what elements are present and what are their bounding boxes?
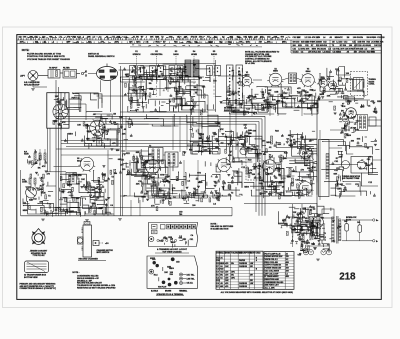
upper right misc xyxy=(346,135,379,150)
svg-text:5%: 5% xyxy=(364,163,367,165)
svg-text:330: 330 xyxy=(319,42,322,44)
table row line xyxy=(216,270,263,272)
svg-text:10K: 10K xyxy=(55,96,59,98)
tables bottom line xyxy=(216,288,294,290)
output stage wiring xyxy=(283,130,317,196)
field coil taps xyxy=(332,152,344,187)
label pickup xyxy=(24,81,40,86)
svg-text:1M: 1M xyxy=(199,138,202,140)
chassis part box xyxy=(152,225,158,230)
svg-text:470: 470 xyxy=(101,41,104,44)
svg-text:10K: 10K xyxy=(212,132,216,134)
svg-text:22K: 22K xyxy=(293,212,297,214)
switch drop wire xyxy=(175,80,177,100)
part box drop wire 1 xyxy=(47,128,49,172)
speaker field / choke box xyxy=(319,140,330,197)
gang line S5 xyxy=(213,56,215,64)
V1 bias components xyxy=(243,89,273,110)
schematic border frame xyxy=(17,35,382,300)
svg-text:OUTPUT TRANS 5K: OUTPUT TRANS 5K xyxy=(265,264,282,267)
vertical wire xyxy=(190,80,192,150)
svg-text:100 218: 100 218 xyxy=(293,42,300,44)
svg-text:5%: 5% xyxy=(114,173,117,175)
wafer S1 contacts xyxy=(132,67,141,72)
svg-text:R7: R7 xyxy=(141,37,143,39)
tone takeoff wiring xyxy=(186,173,221,198)
misc resistor table xyxy=(264,252,294,290)
eye tube mount box xyxy=(351,157,373,174)
svg-text:68K: 68K xyxy=(118,159,122,161)
switch drop wire xyxy=(167,80,169,92)
driver wiring xyxy=(218,131,262,162)
svg-text:5%: 5% xyxy=(136,37,139,39)
label volume xyxy=(22,179,28,183)
switch wafer S3 left xyxy=(169,66,175,76)
svg-text:68K: 68K xyxy=(213,134,217,136)
svg-text:R22: R22 xyxy=(367,42,370,44)
wire xyxy=(33,86,47,88)
power input wiring xyxy=(292,206,325,240)
vertical wire xyxy=(198,80,200,150)
label switch S5 xyxy=(88,53,115,58)
switch wafer S3 right xyxy=(177,66,183,76)
svg-text:10K: 10K xyxy=(81,179,85,181)
title band rule 2 xyxy=(17,42,382,44)
svg-text:OSC COIL 260UH: OSC COIL 260UH xyxy=(265,270,280,272)
svg-text:470: 470 xyxy=(259,41,262,44)
svg-text:SPEECH: SPEECH xyxy=(133,54,141,56)
label V3 xyxy=(306,69,311,73)
svg-text:47K: 47K xyxy=(42,165,46,168)
svg-text:.01: .01 xyxy=(323,49,326,51)
output transformer components xyxy=(339,111,360,138)
svg-text:C12: C12 xyxy=(77,37,80,39)
left vertical bus 3 xyxy=(60,92,62,216)
tube socket box top view xyxy=(167,225,171,229)
speaker plug terminal xyxy=(171,257,175,261)
resistor xyxy=(29,178,31,184)
svg-text:2.2: 2.2 xyxy=(365,49,368,51)
svg-text:S2B: S2B xyxy=(259,183,263,185)
svg-text:.1: .1 xyxy=(55,37,57,39)
mid bus drop xyxy=(246,147,248,150)
label V1 xyxy=(245,72,250,76)
shield box (dashed) xyxy=(246,149,260,180)
svg-text:44: 44 xyxy=(286,252,288,255)
resistor heater xyxy=(301,241,303,247)
ground xyxy=(316,259,320,261)
svg-text:MEG: MEG xyxy=(346,135,351,137)
gang line S4 lower xyxy=(193,64,195,97)
tube V4b xyxy=(216,159,232,173)
svg-text:2.2: 2.2 xyxy=(99,37,102,39)
wire xyxy=(34,160,36,165)
below tube chain wiring xyxy=(223,100,318,114)
svg-text:330: 330 xyxy=(42,37,45,39)
tone control network xyxy=(281,205,323,237)
svg-text:R22: R22 xyxy=(155,37,158,39)
label BASS xyxy=(173,53,179,56)
table row line xyxy=(264,283,294,285)
title band rule 3 right xyxy=(291,46,381,48)
switch wafer S2 right xyxy=(158,66,164,76)
tube V2 converter xyxy=(267,73,283,87)
note text xyxy=(22,49,30,52)
gang line S4 xyxy=(193,56,195,64)
table row line xyxy=(264,277,294,279)
part box text xyxy=(153,226,156,228)
note text switches xyxy=(211,223,234,230)
dashed lead xyxy=(99,242,104,244)
part box drop wire 2 xyxy=(49,128,51,172)
antenna terminal box xyxy=(369,117,376,126)
svg-text:C12: C12 xyxy=(323,42,326,44)
table row line xyxy=(264,266,294,268)
svg-text:C4: C4 xyxy=(216,282,218,285)
svg-text:R22: R22 xyxy=(228,42,231,44)
chassis labels xyxy=(159,234,194,247)
terminal row line xyxy=(27,268,47,270)
table row line xyxy=(264,280,294,282)
bottom-left components xyxy=(25,184,48,205)
label SPEECH xyxy=(133,54,141,56)
socket box first xyxy=(161,225,166,230)
wire xyxy=(121,150,149,152)
svg-text:R22: R22 xyxy=(156,42,159,44)
svg-text:.1: .1 xyxy=(82,37,84,39)
label terminal xyxy=(179,289,187,292)
svg-text:L4 218: L4 218 xyxy=(336,41,342,44)
table row line xyxy=(264,260,294,262)
tube V4 detector xyxy=(144,160,162,175)
resistor divider xyxy=(34,153,36,160)
svg-text:C4: C4 xyxy=(216,276,218,279)
svg-text:68K: 68K xyxy=(198,133,202,135)
wire xyxy=(120,76,204,78)
V4b components xyxy=(215,174,234,201)
svg-text:470: 470 xyxy=(225,276,228,279)
svg-text:.05: .05 xyxy=(346,51,349,53)
svg-text:10K: 10K xyxy=(164,272,168,274)
svg-text:68K: 68K xyxy=(339,184,343,186)
svg-text:S2B: S2B xyxy=(248,173,252,175)
power transformer primary xyxy=(332,217,335,243)
left mid labels xyxy=(64,122,89,144)
svg-text:470: 470 xyxy=(191,36,194,39)
label tuning xyxy=(369,79,377,86)
IF transformer T1 xyxy=(289,73,297,84)
svg-text:470: 470 xyxy=(67,36,70,39)
wire xyxy=(282,78,289,80)
wire xyxy=(368,125,382,127)
svg-text:CARBON: CARBON xyxy=(239,265,248,268)
svg-text:22K: 22K xyxy=(136,183,140,185)
svg-text:VOICE COIL 3.2: VOICE COIL 3.2 xyxy=(265,259,278,261)
title band divider xyxy=(329,40,331,53)
svg-text:47K: 47K xyxy=(151,204,155,207)
svg-text:FIELD COIL 450: FIELD COIL 450 xyxy=(265,261,278,264)
cluster wiring xyxy=(187,121,220,154)
terminal panel outline xyxy=(147,256,198,288)
filter capacitor C41 xyxy=(358,225,362,233)
svg-text:1M: 1M xyxy=(76,198,79,200)
svg-text:R7: R7 xyxy=(163,42,165,44)
svg-text:100: 100 xyxy=(349,45,352,47)
coupling cluster xyxy=(227,124,252,147)
table header line xyxy=(216,255,263,257)
svg-text:S2B: S2B xyxy=(248,37,252,39)
wire from S5 to bank xyxy=(97,95,151,97)
svg-text:T3: T3 xyxy=(161,37,163,39)
table row line xyxy=(264,274,294,276)
svg-text:5%: 5% xyxy=(163,182,166,184)
ground xyxy=(41,219,45,221)
mid horizontal bus 2 xyxy=(61,143,243,145)
bus drop xyxy=(179,116,181,152)
filter element xyxy=(71,71,76,77)
T3 secondary xyxy=(173,154,175,166)
table row line xyxy=(216,258,263,260)
ground xyxy=(31,89,35,91)
wire xyxy=(88,73,97,75)
svg-text:C4: C4 xyxy=(220,276,222,279)
table row line xyxy=(264,269,294,271)
power input components xyxy=(292,208,324,237)
title band rule 5 right xyxy=(291,52,381,54)
svg-text:470: 470 xyxy=(225,273,228,276)
svg-text:MEG: MEG xyxy=(171,242,176,244)
wire xyxy=(342,240,373,242)
wire xyxy=(110,96,112,112)
title band divider xyxy=(354,40,356,53)
tube V9 bottom-left xyxy=(26,184,37,201)
resistor in T6 xyxy=(56,71,58,77)
bus drop xyxy=(172,116,174,150)
svg-text:V10: V10 xyxy=(298,254,301,256)
chassis part box 2 xyxy=(152,230,158,234)
svg-text:TYPE P12-RX: TYPE P12-RX xyxy=(32,255,45,257)
svg-text:6V6: 6V6 xyxy=(187,42,190,44)
title band row3 marks xyxy=(132,45,258,47)
switch wafer S5 left xyxy=(207,66,213,76)
transformer T6 xyxy=(48,70,60,79)
svg-text:MEG: MEG xyxy=(198,182,203,184)
eye assembly parts xyxy=(357,156,376,170)
svg-text:6V6: 6V6 xyxy=(88,42,91,44)
svg-text:MEG: MEG xyxy=(244,187,249,189)
label RF gain xyxy=(24,151,29,155)
bus wire B+ xyxy=(56,118,262,120)
power transformer core xyxy=(337,216,338,244)
label switch S3 xyxy=(175,51,178,53)
left IF components xyxy=(118,117,134,140)
L2 core line 2 xyxy=(359,79,361,90)
T1 primary xyxy=(290,75,292,83)
note text values xyxy=(77,275,116,290)
svg-text:MEG: MEG xyxy=(266,142,271,144)
detector wiring xyxy=(135,172,186,199)
svg-text:HOME: HOME xyxy=(191,54,197,56)
band switch components xyxy=(329,100,382,116)
driver stage components xyxy=(220,128,260,162)
pilot terminal group xyxy=(162,278,178,287)
switch wafer S5A xyxy=(227,65,234,105)
coupling components xyxy=(264,142,285,172)
svg-text:C12: C12 xyxy=(344,42,347,44)
L2 core line xyxy=(356,79,358,90)
wire to power section xyxy=(244,203,317,205)
drop to bus xyxy=(77,198,79,216)
vertical wire x108 xyxy=(107,150,109,216)
amplifier part box xyxy=(47,93,69,129)
terminal row line xyxy=(27,266,47,268)
phono amp components xyxy=(53,120,69,130)
wire xyxy=(329,147,342,149)
arrow pot 1 xyxy=(31,160,38,168)
table row line xyxy=(216,287,263,289)
labels terminals xyxy=(187,273,196,284)
wire xyxy=(235,105,237,150)
wire xyxy=(119,69,132,71)
table row line xyxy=(264,263,294,265)
record changer side box xyxy=(78,237,84,244)
bus drop xyxy=(186,116,188,150)
label switch S1 xyxy=(135,51,138,53)
table column line xyxy=(248,251,250,289)
bus wire AVC xyxy=(56,115,265,117)
wire part box to socket xyxy=(70,103,86,105)
wire xyxy=(44,149,46,153)
svg-text:L4 6V6: L4 6V6 xyxy=(338,48,344,51)
socket inner dot xyxy=(180,226,182,228)
tube socket top view with radial pins xyxy=(88,118,108,138)
svg-text:6U5 TARGET TUBE: 6U5 TARGET TUBE xyxy=(342,177,360,180)
T4 primary xyxy=(359,116,361,129)
tube socket box top view xyxy=(184,225,188,229)
left vertical bus 1 xyxy=(55,80,57,216)
title band rule 3 (partial) xyxy=(130,46,262,48)
title band rule 1 xyxy=(17,39,382,41)
svg-text:47K: 47K xyxy=(355,129,359,132)
svg-text:5%: 5% xyxy=(50,37,53,39)
svg-text:22K: 22K xyxy=(74,175,78,177)
wire xyxy=(346,232,348,241)
bus drop right 1 xyxy=(264,116,266,216)
tube V4a first audio xyxy=(79,157,96,172)
socket inner dot xyxy=(189,226,191,228)
tube socket box top view xyxy=(188,225,192,229)
svg-text:CARBON: CARBON xyxy=(239,262,248,265)
tube socket box top view xyxy=(192,225,196,229)
svg-text:RPX-052 PICKUP: RPX-052 PICKUP xyxy=(24,85,40,87)
svg-text:S2B: S2B xyxy=(104,180,108,182)
drop to bus xyxy=(94,199,96,216)
svg-text:1M: 1M xyxy=(170,239,173,241)
svg-text:MEG: MEG xyxy=(312,49,317,51)
svg-text:.1: .1 xyxy=(53,42,55,44)
svg-text:6BA6: 6BA6 xyxy=(245,73,250,76)
svg-text:470: 470 xyxy=(225,285,228,288)
label V2 xyxy=(273,68,278,72)
tube V5 output xyxy=(297,146,313,160)
switch wafer S5 right xyxy=(215,66,221,76)
record changer idler circle xyxy=(78,238,83,243)
svg-text:455: 455 xyxy=(286,275,289,278)
lower-left wiring xyxy=(23,205,80,215)
note text windings xyxy=(20,282,57,290)
wire xyxy=(251,96,253,116)
note text voltages xyxy=(245,51,280,66)
svg-text:2.2: 2.2 xyxy=(328,49,331,51)
svg-text:PHONO MOTOR 115V: PHONO MOTOR 115V xyxy=(265,256,284,258)
svg-text:MUTE SWITCH: MUTE SWITCH xyxy=(97,252,110,254)
audio drop wire xyxy=(183,160,185,196)
bus drop xyxy=(125,116,127,150)
svg-text:R22 6V6: R22 6V6 xyxy=(316,45,323,47)
svg-text:R7 6V6: R7 6V6 xyxy=(340,45,346,47)
svg-text:CONDENSER VALUES: CONDENSER VALUES xyxy=(265,281,284,284)
svg-text:C12: C12 xyxy=(219,42,222,44)
oscillator components xyxy=(319,69,350,98)
svg-text:NOTE:: NOTE: xyxy=(22,49,30,52)
terminal panel wiring xyxy=(154,267,174,282)
svg-text:330: 330 xyxy=(169,37,172,39)
svg-text:LINE TML.: LINE TML. xyxy=(187,278,196,280)
svg-text:.1 6V6: .1 6V6 xyxy=(304,49,309,51)
audio drop wire xyxy=(169,160,171,196)
wire xyxy=(44,160,46,165)
magic eye tube xyxy=(342,161,350,169)
label brown xyxy=(165,290,172,292)
vertical bus x122 xyxy=(122,70,124,216)
IF input components xyxy=(119,152,150,176)
parts table text xyxy=(216,251,261,287)
label V4 xyxy=(77,157,82,162)
svg-text:350: 350 xyxy=(286,268,289,270)
gang line S3 xyxy=(175,56,177,64)
table row line xyxy=(264,286,294,288)
wire xyxy=(359,233,361,241)
svg-text:PILOT LAMP No.44: PILOT LAMP No.44 xyxy=(265,252,281,255)
svg-text:330: 330 xyxy=(354,51,357,53)
underline chassis xyxy=(155,252,189,254)
pilot lamp xyxy=(326,250,331,255)
switch output wiring xyxy=(127,83,208,112)
long wire screen supply xyxy=(225,107,317,109)
left vertical bus 2 xyxy=(58,87,60,216)
under socket components xyxy=(101,149,122,185)
svg-text:PAPER: PAPER xyxy=(239,259,246,262)
svg-text:LEFT: LEFT xyxy=(20,75,26,77)
wire xyxy=(297,78,302,80)
tone network under switches xyxy=(129,85,206,115)
svg-text:IF TRANS 455KC: IF TRANS 455KC xyxy=(265,275,280,278)
svg-text:PANEL REVERSAL SWITCH: PANEL REVERSAL SWITCH xyxy=(88,55,115,58)
L7 winding 2 xyxy=(72,174,74,183)
oscillator wiring xyxy=(320,67,365,103)
oscillator coil L2 xyxy=(354,78,364,91)
svg-text:R7: R7 xyxy=(267,42,269,44)
svg-text:100: 100 xyxy=(293,45,296,47)
switch wafer S1 left xyxy=(130,66,136,76)
svg-text:6V6: 6V6 xyxy=(260,37,263,39)
svg-text:10K: 10K xyxy=(77,125,81,127)
svg-text:ALL VOLTAGES MEASURED WITH CHA: ALL VOLTAGES MEASURED WITH CHANNEL SELEC… xyxy=(221,291,294,294)
heater wiring xyxy=(291,228,318,250)
svg-text:S2B: S2B xyxy=(298,45,302,47)
svg-text:470: 470 xyxy=(317,36,320,39)
pilot lamp xyxy=(303,250,308,255)
